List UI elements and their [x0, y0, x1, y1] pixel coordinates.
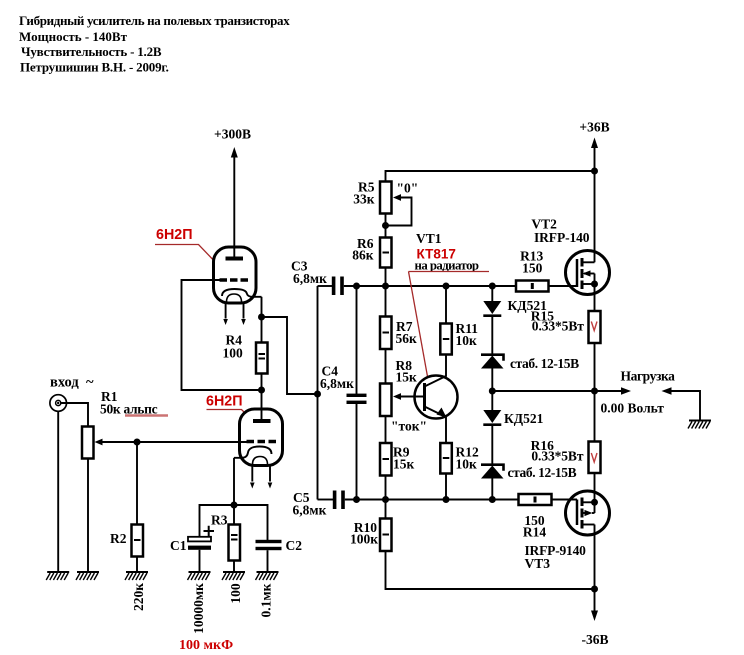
- node diode mid: [489, 388, 496, 395]
- zener VD2: [481, 355, 504, 361]
- svg-text:6Н2П: 6Н2П: [206, 394, 243, 410]
- potentiometer R8: [380, 384, 392, 417]
- svg-text:6,8мк: 6,8мк: [293, 503, 327, 518]
- VT3 substrate arrow: [582, 512, 588, 514]
- wire R10 top: [385, 500, 387, 519]
- ground input connector: [46, 572, 69, 580]
- wire diode mid to output rail: [492, 390, 594, 392]
- output arrow right: [595, 390, 625, 392]
- zener VD4: [481, 465, 504, 471]
- R5 wiper arrow: [393, 194, 401, 201]
- potentiometer R1: [82, 427, 94, 459]
- svg-text:0.33*5Вт: 0.33*5Вт: [532, 319, 584, 334]
- svg-text:-36В: -36В: [582, 632, 609, 647]
- tube VL1 heater arrow 1: [225, 303, 227, 319]
- wire VD1-VD2: [491, 316, 493, 354]
- R8 wiper arrow: [393, 393, 401, 400]
- wire R4 top: [261, 317, 263, 343]
- resistor R13: [516, 281, 549, 292]
- resistor R15: [589, 311, 601, 343]
- node coupling: [314, 391, 321, 398]
- tube VL2 heater arrow 2: [269, 466, 271, 482]
- tube VL2 grid dashes: [247, 440, 277, 444]
- VT2 source: [582, 283, 595, 285]
- wire connector to R1: [61, 403, 88, 427]
- transistor VT1: [415, 376, 458, 419]
- resistor R6: [380, 238, 392, 268]
- svg-text:КД521: КД521: [504, 411, 544, 426]
- tube VL1 heater arrow 2: [243, 303, 245, 319]
- wire VL2 anode: [261, 390, 263, 421]
- wire R10 bottom to -36V rail: [386, 551, 595, 589]
- svg-text:Гибридный усилитель на полевых: Гибридный усилитель на полевых транзисто…: [19, 13, 290, 28]
- wire R9 bottom: [385, 476, 387, 500]
- svg-text:10к: 10к: [456, 457, 478, 472]
- ground C2: [256, 572, 279, 580]
- svg-text:0.33*5Вт: 0.33*5Вт: [531, 449, 583, 464]
- node C4 top: [353, 283, 360, 290]
- svg-text:10000мк: 10000мк: [191, 583, 206, 634]
- tube VL2 heater arrow 1: [251, 466, 253, 482]
- output arrow left (from ground): [662, 387, 672, 395]
- svg-text:10к: 10к: [456, 333, 478, 348]
- svg-text:на радиатор: на радиатор: [415, 259, 479, 273]
- wire R2 top: [136, 442, 138, 525]
- node output: [591, 388, 598, 395]
- tube VL2 anode plate: [253, 419, 271, 423]
- wire R6 bottom: [385, 268, 387, 287]
- VT1 emitter: [425, 407, 447, 444]
- node VT3 source: [591, 499, 598, 506]
- wire R7/R8: [385, 349, 387, 384]
- transistor VT2 MOSFET: [566, 251, 610, 295]
- svg-text:220к: 220к: [131, 583, 146, 611]
- wire R3 top: [233, 505, 235, 525]
- svg-text:вход ~: вход ~: [50, 375, 94, 391]
- input connector X1: [50, 395, 67, 412]
- svg-text:+300В: +300В: [214, 127, 251, 142]
- resistor R2: [132, 525, 144, 557]
- capacitor C3: [332, 277, 336, 296]
- wire VL1 cathode down: [261, 297, 263, 317]
- svg-text:150: 150: [522, 261, 543, 276]
- VT2 drain: [582, 261, 595, 263]
- wire R1 bottom to ground: [87, 459, 89, 573]
- tube VL1 heater arc: [227, 294, 242, 302]
- svg-text:100 мкФ: 100 мкФ: [179, 638, 233, 653]
- supply +36V arrow: [591, 138, 598, 149]
- wire node to C1: [200, 505, 235, 537]
- wiper wire: [386, 198, 412, 226]
- svg-text:100к: 100к: [350, 532, 378, 547]
- node R1 wiper / R2: [134, 439, 141, 446]
- wire R2 bottom: [136, 557, 138, 573]
- svg-text:стаб. 12-15В: стаб. 12-15В: [510, 356, 579, 371]
- tube VL1 cathode: [222, 289, 262, 297]
- wire C5 left: [318, 499, 334, 501]
- wire C4 bottom: [356, 404, 358, 500]
- wire VD4 bottom: [491, 479, 493, 500]
- svg-text:Чувствительность - 1.2В: Чувствительность - 1.2В: [21, 44, 162, 59]
- svg-text:+36В: +36В: [579, 120, 609, 135]
- VT1 base bar: [423, 383, 426, 411]
- svg-text:0.1мк: 0.1мк: [259, 583, 274, 617]
- wire R3 bottom: [233, 561, 235, 573]
- supply -36V arrow: [594, 589, 596, 612]
- resistor R7: [380, 317, 392, 350]
- svg-text:VT1: VT1: [416, 231, 442, 246]
- node cathode VL1 / R4: [258, 314, 265, 321]
- VT3 gate bar: [576, 500, 579, 526]
- node diode chain bottom: [489, 496, 496, 503]
- wire VD3-VD4: [491, 425, 493, 464]
- svg-text:Петрушишин В.Н. - 2009г.: Петрушишин В.Н. - 2009г.: [20, 60, 169, 75]
- VT2 substrate arrow: [584, 273, 595, 275]
- node R12 bottom: [443, 496, 450, 503]
- wire C3 left: [318, 285, 333, 287]
- svg-text:50к альпс: 50к альпс: [100, 402, 158, 417]
- wire R4 bottom: [261, 374, 263, 391]
- ground R3: [222, 572, 245, 580]
- wire anode VL1 to +300V: [233, 156, 235, 257]
- node line bottom: [345, 499, 519, 501]
- svg-text:15к: 15к: [393, 457, 415, 472]
- coupling node vertical wire: [317, 286, 319, 500]
- svg-text:Нагрузка: Нагрузка: [621, 369, 676, 384]
- ground C1: [188, 572, 211, 580]
- svg-text:6Н2П: 6Н2П: [156, 227, 193, 243]
- svg-text:Мощность - 140Вт: Мощность - 140Вт: [19, 29, 128, 44]
- VT2 gate bar: [576, 259, 579, 287]
- node C4 bottom: [353, 496, 360, 503]
- node R5/R6: [382, 222, 389, 229]
- node +36V rail: [591, 168, 598, 175]
- wire R12 bottom: [445, 474, 447, 500]
- capacitor C4: [347, 394, 367, 397]
- svg-text:стаб. 12-15В: стаб. 12-15В: [508, 465, 577, 480]
- svg-text:100: 100: [228, 583, 243, 604]
- node R9/R10: [382, 496, 389, 503]
- resistor R10: [380, 519, 392, 552]
- svg-text:R3: R3: [211, 513, 228, 528]
- VT2 channel segments: [581, 258, 584, 289]
- wire base VT1: [400, 396, 425, 398]
- top rail: [386, 171, 595, 182]
- diode chain top wire: [491, 286, 493, 301]
- wire VL2 grid: [100, 441, 247, 443]
- tube VL1 grid dashes: [220, 278, 249, 282]
- ground R2: [125, 572, 148, 580]
- node R6/R7: [382, 283, 389, 290]
- wire cathode node to coupling node: [262, 317, 318, 394]
- wire C1 to ground: [199, 550, 201, 572]
- capacitor C5: [333, 491, 337, 510]
- resistor R16: [589, 442, 601, 474]
- svg-text:"ток": "ток": [391, 419, 427, 434]
- node VT2 source: [591, 281, 598, 288]
- resistor R9: [380, 443, 392, 476]
- leader line VL1: [155, 245, 214, 261]
- resistor R11: [440, 324, 452, 355]
- red underline and leader VT1: [409, 271, 490, 273]
- underline red: [125, 414, 168, 416]
- VT3 drain: [582, 524, 595, 526]
- C1 plus sign: [204, 526, 215, 536]
- wire node-VD3: [491, 391, 493, 410]
- resistor R12: [440, 443, 452, 474]
- svg-text:R14: R14: [523, 525, 546, 540]
- wire R13 to VT2 gate: [549, 285, 578, 287]
- transistor VT3 MOSFET: [566, 491, 610, 535]
- node diode chain top: [489, 283, 496, 290]
- VT3 channel segments: [581, 498, 584, 529]
- supply +300V arrow: [231, 147, 238, 158]
- diode VD3 KD521: [483, 410, 501, 423]
- node R4 / VL2 anode / VL1 grid: [258, 387, 265, 394]
- svg-text:33к: 33к: [353, 192, 375, 207]
- svg-text:IRFP-140: IRFP-140: [534, 230, 590, 245]
- capacitor C2: [256, 540, 282, 543]
- capacitor C1 electrolytic: [188, 537, 211, 542]
- wire R15 bottom: [594, 343, 596, 442]
- resistor R3: [229, 525, 241, 561]
- svg-text:15к: 15к: [396, 370, 418, 385]
- wire R5 bottom: [385, 214, 387, 238]
- tube VL2 cathode: [234, 447, 272, 458]
- tube VL1 anode plate: [226, 257, 244, 261]
- wire C4 top: [356, 286, 358, 394]
- wire R7 top: [385, 286, 387, 317]
- wire R16 bottom: [594, 473, 596, 502]
- R1 wiper arrow: [95, 439, 103, 446]
- wire VL1 grid feedback: [182, 280, 262, 390]
- wire R11 top: [445, 286, 447, 324]
- diode VD1 KD521: [483, 301, 501, 314]
- resistor R4: [256, 343, 268, 374]
- wire node to C2: [234, 505, 268, 540]
- ground output: [688, 421, 711, 429]
- svg-text:C2: C2: [286, 538, 303, 553]
- potentiometer R5: [380, 182, 392, 214]
- svg-text:VT3: VT3: [525, 556, 551, 571]
- resistor R14: [519, 494, 552, 505]
- svg-text:100: 100: [223, 346, 244, 361]
- wire R14 to VT3 gate: [552, 499, 578, 501]
- node R11 top: [443, 283, 450, 290]
- svg-text:6,8мк: 6,8мк: [320, 376, 354, 391]
- node -36V rail: [591, 586, 598, 593]
- node line top: [344, 285, 516, 287]
- node VL2 cathode / C1 / R3 / C2: [231, 502, 238, 509]
- leader line VL2: [207, 410, 246, 414]
- wire VD2-node: [491, 369, 493, 392]
- VT3 source: [582, 501, 595, 503]
- svg-text:56к: 56к: [396, 331, 418, 346]
- svg-text:R2: R2: [110, 531, 127, 546]
- wire VL2 cathode down: [233, 458, 235, 505]
- tube VL2 heater arc: [253, 457, 268, 465]
- VT1 collector: [425, 355, 447, 387]
- svg-text:C1: C1: [170, 538, 187, 553]
- tube VL1 envelope: [214, 247, 257, 303]
- wire C2 to ground: [267, 550, 269, 572]
- svg-text:"0": "0": [397, 181, 419, 196]
- svg-text:0.00 Вольт: 0.00 Вольт: [601, 401, 665, 416]
- ground R1: [76, 572, 99, 580]
- svg-text:86к: 86к: [352, 248, 374, 263]
- svg-text:6,8мк: 6,8мк: [293, 271, 327, 286]
- tube VL2 envelope: [240, 409, 283, 466]
- wire R8/R9: [385, 416, 387, 443]
- wire connector to ground: [57, 411, 59, 572]
